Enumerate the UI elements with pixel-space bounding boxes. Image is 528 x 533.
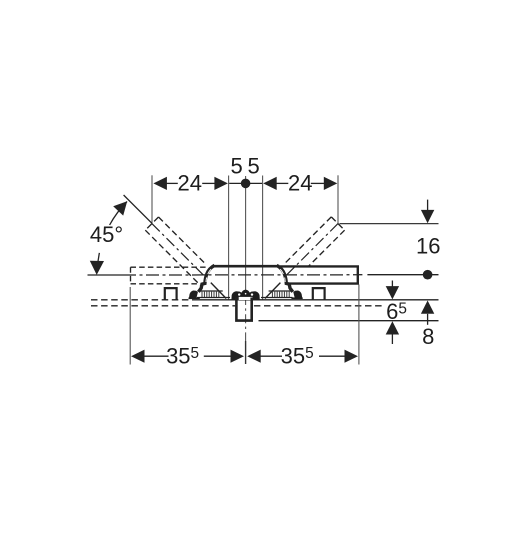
arrowhead 35.5 left, left end — [131, 350, 145, 363]
extension line center axis (upper solid part) — [245, 176, 247, 296]
left gasket blob — [189, 291, 198, 299]
right gasket blob — [293, 291, 302, 299]
left funnel diagonal — [211, 283, 226, 299]
16 dimension down arrowhead — [421, 210, 434, 223]
trap collar main body — [231, 290, 259, 300]
floor line A solid part — [197, 299, 439, 301]
extension line c2 (5 right boundary) — [262, 176, 264, 300]
right branch pipe (dashed), end face — [331, 217, 344, 230]
main horizontal axis dash-dot — [123, 274, 359, 276]
dimension line 35.5 right: segment b — [319, 355, 345, 357]
arrowhead 35.5 right, right end — [345, 350, 359, 363]
right bell socket profile — [277, 265, 293, 292]
left branch axis (dash-dot) — [152, 224, 204, 276]
dimension line 35.5 left: segment b — [204, 355, 232, 357]
arrowhead 45 bottom (points down at horizontal axis) — [90, 261, 104, 275]
left branch pipe lower edge — [145, 230, 202, 287]
svg-text:8: 8 — [422, 324, 434, 349]
floor line B dashed (left of outlet) — [91, 305, 235, 307]
left comb bottom line — [197, 297, 230, 299]
left comb top line — [200, 290, 223, 292]
svg-text:5: 5 — [230, 154, 242, 179]
reference line at fitting axis (16 bottom / 8 top) — [359, 274, 363, 276]
extension line right of 24 dimension — [337, 175, 339, 223]
svg-text:5: 5 — [247, 154, 259, 179]
dot terminator on axis reference — [423, 270, 433, 280]
trap collar white speck left — [238, 293, 240, 295]
extension line left of 35.5 (dashed pipe end) — [129, 287, 131, 365]
reference line at outlet pipe bottom (6.5 bottom) — [259, 320, 439, 322]
right comb ticks — [272, 292, 289, 298]
dimension line 35.5 left: segment a — [144, 355, 168, 357]
floor line B dashed (right of outlet) — [254, 305, 385, 307]
trap collar white interior below — [239, 297, 253, 300]
left small square clip — [165, 288, 177, 300]
trap collar white speck right — [251, 293, 253, 295]
arrowhead 24 right, right end — [324, 177, 338, 190]
center axis solid segment through bottom dimension — [245, 341, 247, 364]
center axis dash-dot lower part — [245, 296, 247, 341]
svg-text:45°: 45° — [90, 222, 123, 247]
right branch axis (dash-dot) — [287, 224, 338, 275]
arrowhead 24 left, right end — [214, 177, 228, 190]
axis reference line continuation to dot — [367, 274, 438, 276]
extension line right of 35.5 (body right edge) — [358, 285, 360, 365]
right funnel diagonal — [265, 283, 280, 299]
main horizontal axis solid leg — [88, 274, 124, 276]
arrowhead 45 top (points up-right at the axis line) — [113, 201, 127, 215]
45 degree axis extension line — [124, 195, 153, 224]
right comb bottom line — [261, 297, 293, 299]
dimension line 24 left: segment a — [167, 182, 178, 184]
reference line at branch end height (16 top) — [340, 223, 439, 225]
6.5 dimension up arrow stem — [391, 335, 393, 345]
floor line A dashed part (left) — [91, 299, 197, 301]
svg-text:24: 24 — [178, 171, 202, 196]
arrowhead 35.5 left, right end — [231, 350, 245, 363]
dimension line 24 right: segment b — [311, 182, 325, 184]
left branch pipe upper edge — [159, 217, 207, 265]
right branch pipe lower edge — [308, 230, 344, 266]
arrowhead 24 left, left end — [153, 177, 167, 190]
left horizontal pipe bottom edge — [131, 283, 201, 285]
left branch pipe (dashed), end face — [145, 217, 158, 230]
svg-text:16: 16 — [416, 233, 440, 258]
left bell inner slit (white) — [206, 269, 211, 282]
6.5 dimension down arrowhead — [386, 286, 399, 299]
dimension line 5-5 with center dot — [229, 182, 262, 184]
left horizontal pipe top edge — [131, 266, 208, 268]
8 dimension up arrowhead — [421, 301, 434, 314]
6.5 dimension down arrow stem — [391, 281, 393, 287]
16 dimension down arrow stem — [427, 200, 429, 211]
right bell inner slit (white) — [280, 269, 285, 282]
trap collar white speck center — [245, 293, 247, 295]
dimension line 24 right: segment a — [277, 182, 289, 184]
arrowhead 35.5 right, left end — [247, 350, 261, 363]
left horizontal pipe (dashed) end face — [130, 267, 132, 284]
left gasket base bar — [189, 297, 200, 299]
left bell socket profile — [198, 265, 214, 292]
outlet pipe walls and bottom — [236, 298, 251, 321]
center dot terminator — [241, 179, 251, 189]
left comb ticks — [202, 292, 219, 298]
extension line c1 (5 left boundary) — [228, 176, 230, 300]
dimension line 35.5 right: segment a — [261, 355, 283, 357]
svg-text:24: 24 — [288, 171, 312, 196]
extension line left of 24 dimension — [151, 175, 153, 223]
45 degree arc segment lower — [97, 253, 99, 272]
right branch pipe upper edge — [284, 217, 332, 265]
right small square clip — [313, 288, 325, 300]
45 degree arc segment upper — [110, 202, 127, 226]
right outlet pipe body (solid) — [280, 266, 358, 283]
fitting top edge — [214, 265, 280, 268]
6.5 dimension up arrowhead — [386, 321, 399, 334]
arrowhead 24 right, left end — [263, 177, 277, 190]
dimension line 24 left: segment b — [202, 182, 215, 184]
right gasket base bar — [291, 297, 302, 299]
right comb top line — [269, 290, 291, 292]
8 dimension up arrow stem — [427, 314, 429, 325]
